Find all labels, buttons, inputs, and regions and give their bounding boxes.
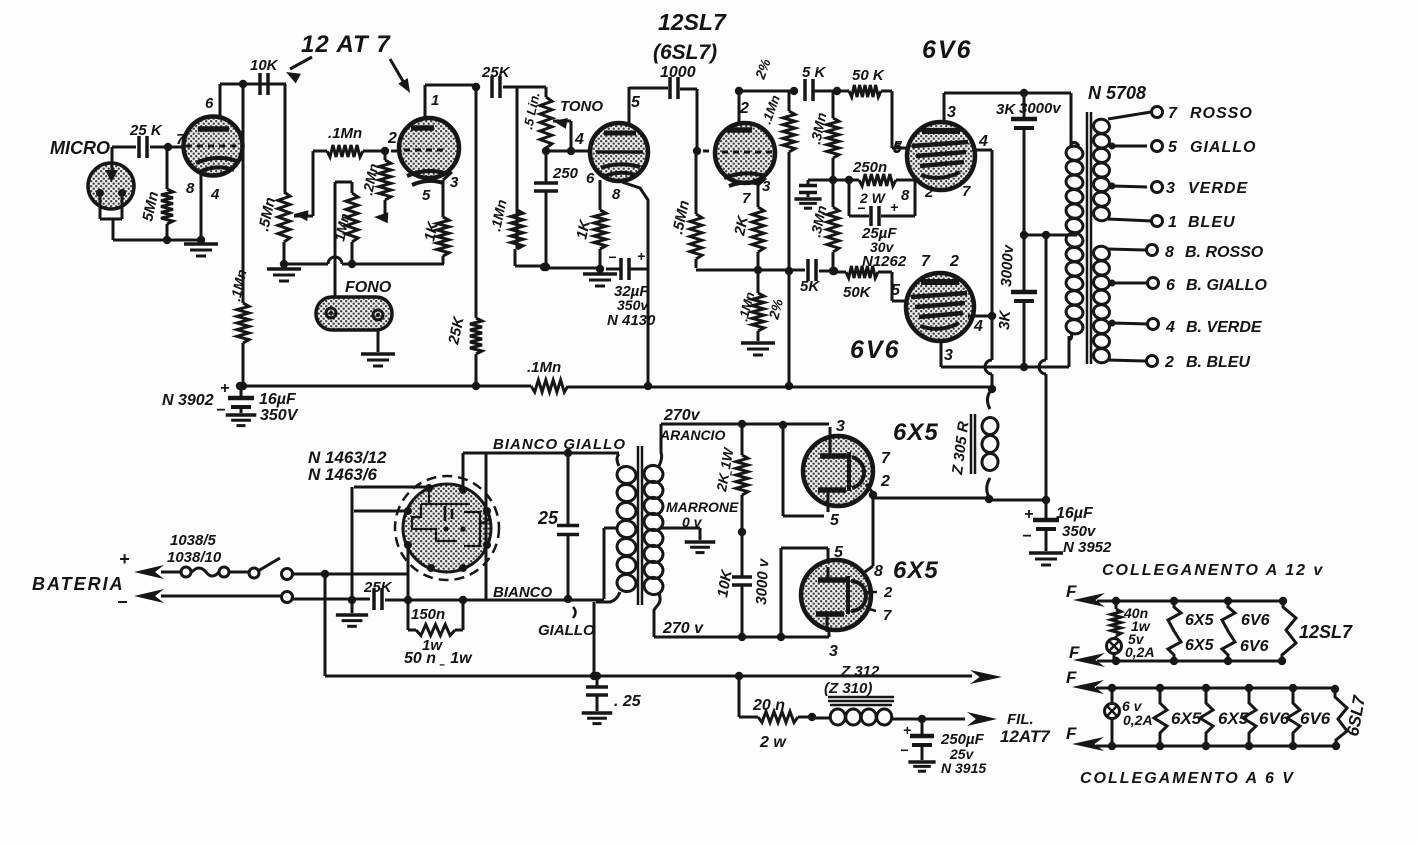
svg-text:−: − [117, 592, 128, 612]
svg-text:−: − [216, 402, 225, 419]
svg-text:50 n ˍ 1w: 50 n ˍ 1w [404, 650, 473, 667]
svg-text:5: 5 [834, 544, 844, 561]
svg-text:8: 8 [186, 180, 195, 197]
svg-text:25K: 25K [481, 64, 511, 81]
svg-text:8: 8 [1165, 244, 1174, 261]
svg-text:250n: 250n [852, 159, 887, 176]
svg-text:2: 2 [883, 584, 893, 601]
svg-text:12 AT 7: 12 AT 7 [301, 31, 391, 58]
svg-text:1038/10: 1038/10 [167, 549, 222, 566]
svg-text:FIL.: FIL. [1007, 711, 1034, 728]
svg-text:GIALLO: GIALLO [538, 622, 595, 639]
svg-text:5: 5 [631, 94, 641, 111]
svg-text:6: 6 [586, 170, 595, 187]
svg-text:(Z 310): (Z 310) [824, 680, 872, 697]
svg-text:B. ROSSO: B. ROSSO [1185, 244, 1264, 261]
svg-text:2: 2 [949, 253, 959, 270]
svg-text:7: 7 [962, 183, 971, 200]
svg-text:0,2A: 0,2A [1125, 644, 1155, 660]
svg-text:F: F [1066, 668, 1077, 687]
svg-text:2 w: 2 w [759, 734, 787, 751]
svg-text:270v: 270v [663, 407, 701, 424]
svg-text:250: 250 [552, 165, 579, 182]
svg-text:BIANCO GIALLO: BIANCO GIALLO [493, 436, 626, 453]
svg-text:5: 5 [1168, 139, 1178, 156]
svg-text:COLLEGAMENTO A 6 V: COLLEGAMENTO A 6 V [1080, 770, 1295, 787]
svg-text:MARRONE: MARRONE [666, 499, 739, 515]
svg-text:3: 3 [836, 418, 845, 435]
svg-text:+: + [119, 549, 130, 569]
svg-text:3: 3 [450, 174, 459, 191]
svg-text:350v: 350v [617, 297, 649, 313]
svg-text:N 1463/6: N 1463/6 [308, 465, 378, 484]
svg-text:3: 3 [944, 347, 953, 364]
svg-text:B. VERDE: B. VERDE [1186, 319, 1263, 336]
svg-text:−: − [857, 200, 865, 216]
svg-text:0 v: 0 v [682, 514, 703, 530]
svg-text:6X5: 6X5 [893, 557, 939, 584]
svg-text:150n: 150n [411, 606, 445, 623]
svg-text:3: 3 [1166, 180, 1175, 197]
svg-text:1038/5: 1038/5 [170, 532, 217, 549]
svg-text:5: 5 [422, 187, 431, 204]
svg-text:+: + [903, 722, 911, 738]
svg-text:N1262: N1262 [862, 253, 907, 270]
svg-text:6V6: 6V6 [850, 336, 900, 364]
svg-text:−: − [608, 249, 616, 265]
svg-text:. 25: . 25 [614, 693, 642, 710]
svg-text:350v: 350v [1062, 523, 1097, 540]
svg-text:12AT7: 12AT7 [1000, 727, 1051, 746]
svg-text:BATERIA: BATERIA [32, 574, 125, 594]
svg-text:7: 7 [1168, 105, 1178, 122]
svg-text:16µF: 16µF [1056, 505, 1094, 522]
svg-text:7: 7 [921, 253, 931, 270]
svg-text:5: 5 [893, 139, 903, 156]
svg-text:5K: 5K [800, 278, 820, 295]
svg-text:7: 7 [742, 190, 751, 207]
svg-text:8: 8 [612, 186, 621, 203]
svg-text:1000: 1000 [660, 64, 696, 81]
svg-text:7: 7 [881, 450, 891, 467]
svg-text:6X5: 6X5 [1171, 709, 1202, 728]
svg-text:16µF: 16µF [259, 391, 297, 408]
svg-text:−: − [900, 742, 908, 758]
svg-text:BIANCO: BIANCO [493, 584, 552, 601]
svg-text:270 v: 270 v [662, 620, 704, 637]
svg-text:+: + [220, 380, 229, 397]
svg-text:3000 v: 3000 v [753, 557, 772, 605]
svg-text:6V6: 6V6 [1300, 709, 1331, 728]
svg-text:25 K: 25 K [129, 122, 163, 139]
svg-text:3: 3 [829, 643, 838, 660]
svg-text:8: 8 [901, 187, 910, 204]
svg-text:5: 5 [891, 282, 901, 299]
svg-text:4: 4 [973, 318, 983, 335]
svg-text:ROSSO: ROSSO [1190, 105, 1253, 122]
svg-text:6X5: 6X5 [893, 419, 939, 446]
svg-text:F: F [1066, 724, 1077, 743]
svg-text:GIALLO: GIALLO [1190, 139, 1256, 156]
svg-text:2: 2 [1164, 354, 1174, 371]
svg-text:2: 2 [880, 473, 890, 490]
svg-text:7: 7 [883, 607, 892, 624]
svg-text:N 4130: N 4130 [607, 312, 656, 329]
svg-text:6X5: 6X5 [1185, 637, 1215, 654]
svg-text:.1Mn: .1Mn [328, 125, 362, 142]
svg-text:25K: 25K [363, 579, 393, 596]
svg-text:VERDE: VERDE [1188, 180, 1248, 197]
svg-text:6V6: 6V6 [1259, 709, 1290, 728]
svg-text:3000v: 3000v [998, 243, 1017, 287]
svg-text:0,2A: 0,2A [1123, 712, 1153, 728]
svg-text:25: 25 [537, 508, 559, 528]
svg-text:N 3902: N 3902 [162, 392, 214, 409]
svg-text:4: 4 [210, 186, 220, 203]
svg-text:3K: 3K [996, 101, 1016, 118]
svg-text:TONO: TONO [560, 98, 603, 115]
svg-text:BLEU: BLEU [1188, 214, 1236, 231]
svg-text:3000v: 3000v [1019, 100, 1062, 117]
svg-text:8: 8 [874, 563, 883, 580]
svg-text:4: 4 [978, 133, 988, 150]
svg-text:+: + [890, 199, 898, 215]
svg-text:50 K: 50 K [852, 67, 885, 84]
svg-text:3K: 3K [996, 309, 1014, 330]
svg-text:Z 312: Z 312 [840, 663, 880, 680]
svg-text:2: 2 [924, 184, 934, 201]
svg-text:6V6: 6V6 [1240, 638, 1269, 655]
svg-text:(6SL7): (6SL7) [653, 41, 717, 64]
svg-text:2: 2 [387, 130, 397, 147]
svg-text:ARANCIO: ARANCIO [659, 427, 725, 443]
svg-text:N 3915: N 3915 [941, 760, 986, 776]
svg-text:6X5: 6X5 [1185, 612, 1215, 629]
svg-text:12SL7: 12SL7 [658, 9, 727, 35]
svg-text:6V6: 6V6 [1241, 612, 1270, 629]
svg-text:7: 7 [176, 131, 185, 148]
svg-text:−: − [1022, 528, 1031, 545]
svg-text:1: 1 [431, 92, 439, 109]
svg-text:1: 1 [1168, 214, 1177, 231]
svg-text:COLLEGANENTO A 12 v: COLLEGANENTO A 12 v [1102, 562, 1324, 579]
svg-text:+: + [637, 248, 645, 264]
svg-text:6: 6 [205, 95, 214, 112]
svg-text:12SL7: 12SL7 [1299, 622, 1353, 642]
svg-text:10K: 10K [250, 57, 279, 74]
svg-text:50K: 50K [843, 284, 872, 301]
svg-text:6V6: 6V6 [922, 36, 972, 64]
svg-text:F: F [1066, 582, 1077, 601]
svg-text:5: 5 [830, 512, 840, 529]
svg-text:4: 4 [574, 131, 584, 148]
svg-text:.1Mn: .1Mn [527, 359, 561, 376]
svg-text:B. GIALLO: B. GIALLO [1186, 277, 1267, 294]
svg-text:N 3952: N 3952 [1063, 539, 1112, 556]
svg-text:5 K: 5 K [802, 64, 827, 81]
svg-text:B. BLEU: B. BLEU [1186, 354, 1250, 371]
svg-text:6X5: 6X5 [1218, 709, 1249, 728]
svg-text:N 5708: N 5708 [1088, 83, 1146, 103]
svg-text:20 n: 20 n [752, 697, 785, 714]
svg-text:3: 3 [947, 104, 956, 121]
svg-text:4: 4 [1165, 319, 1175, 336]
svg-text:MICRO: MICRO [50, 138, 110, 158]
svg-text:6: 6 [1166, 277, 1175, 294]
svg-text:+: + [1024, 506, 1033, 523]
svg-text:350V: 350V [260, 407, 299, 424]
svg-text:FONO: FONO [345, 279, 392, 296]
